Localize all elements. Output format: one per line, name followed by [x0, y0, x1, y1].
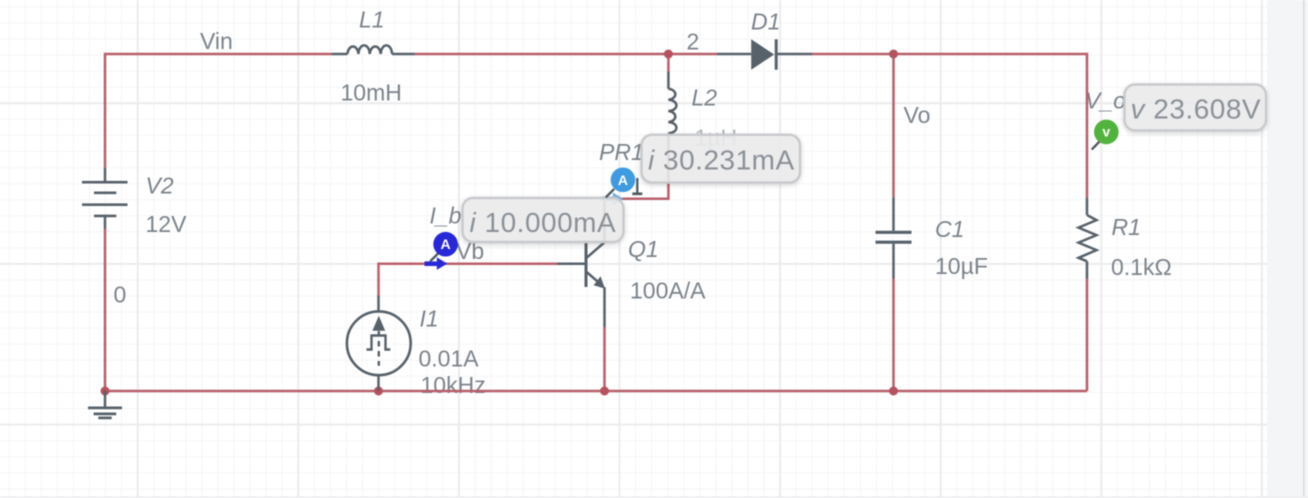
wire top right (D1 to C1 node to top-right corner)	[812, 54, 1087, 198]
svg-text:A: A	[441, 236, 451, 252]
svg-text:12V: 12V	[146, 211, 188, 237]
wire node2 to L2	[667, 54, 670, 71]
svg-text:0.01A: 0.01A	[419, 346, 480, 372]
probe PR1 circle	[611, 168, 636, 193]
svg-text:R1: R1	[1112, 214, 1141, 240]
svg-text:10kHz: 10kHz	[421, 372, 486, 398]
panel divider line	[1303, 0, 1305, 498]
junction I1 bottom	[374, 387, 383, 396]
svg-text:I_b: I_b	[430, 202, 462, 228]
inductor L1	[332, 45, 415, 54]
svg-text:0.1kΩ: 0.1kΩ	[1111, 254, 1172, 280]
wire bottom rail	[105, 390, 1087, 393]
battery V2	[82, 168, 128, 229]
svg-text:Vin: Vin	[200, 28, 233, 54]
current source I1	[347, 296, 411, 392]
probe I_b needle	[430, 253, 438, 261]
svg-text:i 30.231mA: i 30.231mA	[648, 144, 795, 175]
junction ground	[101, 387, 110, 396]
capacitor C1	[876, 197, 912, 278]
probe PR1 needle	[606, 189, 615, 198]
probe V_o needle	[1092, 140, 1101, 149]
I1 arrow head	[372, 316, 385, 331]
wire L2 bottom to corner to collector	[605, 147, 669, 229]
svg-text:0: 0	[114, 282, 127, 308]
svg-text:L2: L2	[692, 85, 718, 111]
tooltip I_b box	[463, 198, 624, 242]
inductor L2	[668, 71, 676, 146]
tooltip V_o box	[1125, 85, 1267, 131]
svg-text:C1: C1	[935, 216, 964, 242]
wire emitter down	[603, 327, 606, 391]
svg-text:100A/A: 100A/A	[630, 277, 706, 303]
diode D1	[717, 39, 812, 69]
svg-text:10µF: 10µF	[935, 253, 988, 279]
bottom edge line	[0, 496, 1308, 498]
wire battery bottom to ground rail	[104, 229, 107, 391]
ground	[88, 391, 122, 418]
transistor Q1	[557, 228, 605, 327]
svg-text:10mH: 10mH	[341, 80, 402, 106]
wire top middle (L1 right to node 2 to D1)	[415, 53, 718, 56]
probe arrow PR1	[601, 192, 623, 205]
svg-text:PR1: PR1	[599, 139, 644, 165]
wire I1 to base	[379, 264, 558, 296]
svg-text:v 23.608V: v 23.608V	[1131, 93, 1262, 124]
transistor Q1 emitter arrow	[594, 276, 605, 288]
right side panel	[1267, 0, 1308, 498]
svg-text:2: 2	[687, 29, 700, 55]
svg-text:L1: L1	[359, 7, 385, 33]
probe I_b circle	[433, 232, 458, 257]
junction C1 bottom	[889, 387, 898, 396]
resistor R1	[1079, 198, 1097, 279]
probe V_o circle	[1094, 120, 1119, 145]
probe PR1 pin	[632, 178, 642, 194]
svg-text:V2: V2	[146, 172, 174, 198]
svg-text:v: v	[1102, 124, 1110, 140]
svg-text:V_o: V_o	[1085, 88, 1126, 114]
svg-text:Q1: Q1	[628, 236, 659, 262]
svg-text:Vo: Vo	[904, 102, 931, 128]
probe arrow I_b	[425, 257, 448, 270]
junction C1 top	[889, 50, 898, 59]
junction node 2	[664, 50, 673, 59]
svg-text:A: A	[618, 172, 628, 188]
svg-text:D1: D1	[751, 9, 780, 35]
tooltip PR1 box	[642, 135, 801, 183]
wire top: Vin horizontal + left drop	[105, 54, 332, 168]
svg-text:I1: I1	[420, 306, 439, 332]
wire C1 bottom branch	[892, 279, 895, 392]
junction emitter bottom	[600, 387, 609, 396]
wire C1 top branch	[892, 54, 895, 197]
wire right branch below R1	[1086, 279, 1089, 392]
svg-text:i 10.000mA: i 10.000mA	[470, 207, 617, 238]
